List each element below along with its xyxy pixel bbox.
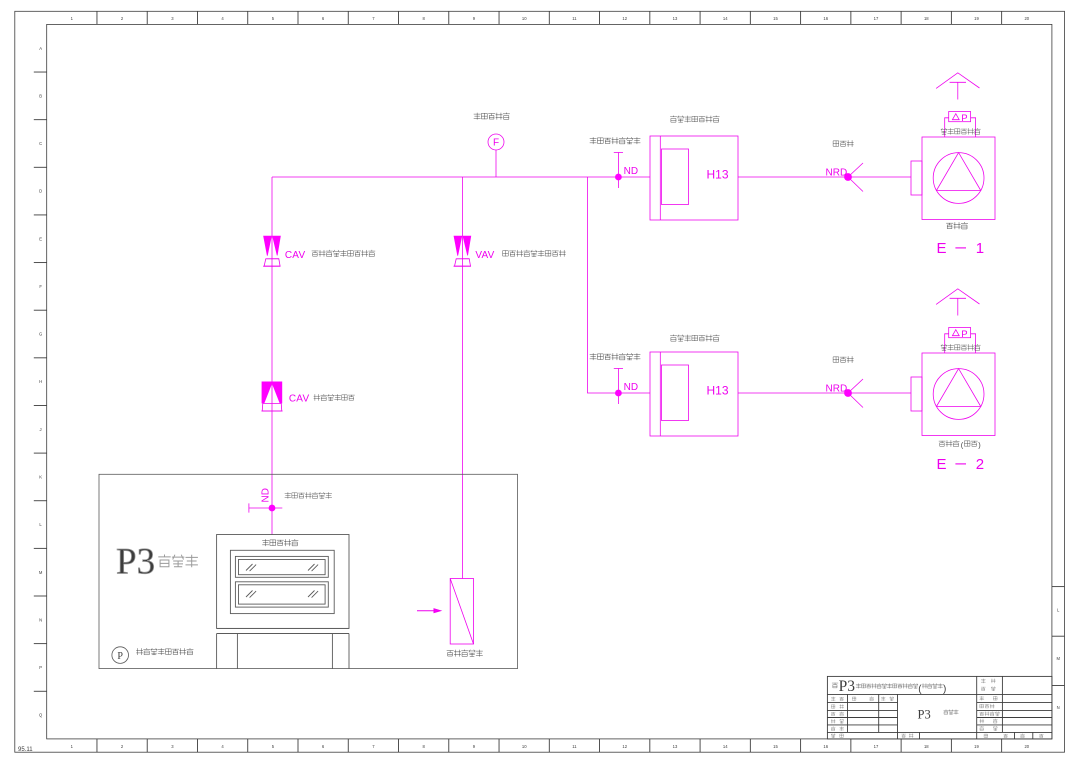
arrow discharge E-1 <box>936 73 979 100</box>
wire VAV branch riser <box>461 177 463 579</box>
title block row label <box>831 727 835 731</box>
svg-text:16: 16 <box>823 16 828 21</box>
label 风机压差开关 #2 <box>941 344 980 350</box>
label 袋进袋出过滤器 #1 <box>670 116 719 122</box>
svg-text:15: 15 <box>773 744 778 749</box>
svg-text:G: G <box>39 332 42 337</box>
title block row label <box>831 697 835 701</box>
title block right label <box>980 712 1000 716</box>
valve ND biosafety sealed valve #3 (room) <box>249 488 282 513</box>
svg-text:NRD: NRD <box>826 167 848 178</box>
label 排风机(备用) <box>939 440 959 446</box>
pressure switch ΔP E-2 <box>945 328 976 354</box>
svg-text:H: H <box>39 379 42 384</box>
svg-text:D: D <box>39 189 42 194</box>
valve ND biosafety sealed valve #2 <box>614 369 623 405</box>
svg-text:20: 20 <box>1024 16 1029 21</box>
wire branch2 drop <box>588 177 651 393</box>
svg-text:CAV: CAV <box>285 250 306 261</box>
filter H13 bag-in bag-out #1 <box>650 136 738 220</box>
label 风机压差开关 #1 <box>941 128 980 134</box>
check valve NRD #1 <box>844 163 863 192</box>
arrow into exhaust <box>417 609 441 613</box>
svg-text:A: A <box>39 46 42 51</box>
svg-text:17: 17 <box>874 16 879 21</box>
svg-text:F: F <box>39 284 42 289</box>
label 比例 <box>902 734 906 737</box>
label 变风量文丘里排风阀 <box>503 250 566 256</box>
svg-text:10: 10 <box>522 16 527 21</box>
header 签字 日期 <box>853 697 856 700</box>
label 单向阀 #2 <box>833 356 853 362</box>
label 建设单位 <box>981 679 985 683</box>
wire filter1 to fan E-1 <box>738 176 911 178</box>
svg-text:VAV: VAV <box>475 250 494 261</box>
arrow discharge E-2 <box>936 289 979 316</box>
svg-text:H13: H13 <box>707 168 729 182</box>
svg-text:13: 13 <box>673 16 678 21</box>
wire filter2 to fan E-2 <box>738 392 911 394</box>
title block frame <box>827 676 1052 739</box>
svg-text:19: 19 <box>974 16 979 21</box>
fan E-2 standby exhaust fan <box>911 353 995 436</box>
flow sensor F stem <box>495 150 497 177</box>
room P3 laboratory outline <box>99 474 518 668</box>
svg-text:P: P <box>961 329 967 340</box>
label 生物安全密闭阀 #1 <box>590 137 640 144</box>
label 生物安全密闭阀 #2 <box>590 353 640 360</box>
biosafety cabinet 生物安全柜 <box>217 535 349 669</box>
svg-text:M: M <box>1056 656 1060 661</box>
title block right label <box>980 719 984 723</box>
valve CAV2 constant air volume exhaust valve <box>261 382 282 412</box>
sensor P room differential pressure <box>112 647 129 664</box>
svg-text:B: B <box>39 93 42 98</box>
svg-text:M: M <box>39 570 43 575</box>
title block row label <box>831 719 835 723</box>
label 实验室 (room) <box>159 555 198 567</box>
title block right label <box>980 726 984 730</box>
svg-text:12: 12 <box>622 744 627 749</box>
svg-text:): ) <box>978 440 980 449</box>
svg-text:17: 17 <box>874 744 879 749</box>
svg-text:NRD: NRD <box>826 383 848 394</box>
label 生物安全密闭阀 #3 <box>285 492 332 498</box>
label 定风量排风阀 <box>314 394 355 400</box>
svg-text:10: 10 <box>522 744 527 749</box>
wire CAV branch riser <box>271 177 273 535</box>
svg-text:C: C <box>39 141 42 146</box>
title text 某P3实验室通风空调系统流程图(排风部分) <box>832 683 838 688</box>
label 生物安全柜 <box>262 539 298 546</box>
check valve NRD #2 <box>844 379 863 408</box>
label 定风量文丘里排风阀 <box>312 250 375 256</box>
svg-text:F: F <box>493 138 499 149</box>
svg-text:14: 14 <box>723 16 728 21</box>
title block row label <box>831 712 835 715</box>
svg-text:14: 14 <box>723 744 728 749</box>
svg-text:16: 16 <box>823 744 828 749</box>
svg-text:18: 18 <box>924 744 929 749</box>
svg-text:ND: ND <box>624 166 638 177</box>
svg-text:19: 19 <box>974 744 979 749</box>
svg-text:15: 15 <box>773 16 778 21</box>
svg-text:CAV: CAV <box>289 394 310 405</box>
svg-text:ND: ND <box>624 382 638 393</box>
svg-text:H13: H13 <box>707 384 729 398</box>
svg-text:P3: P3 <box>839 678 856 695</box>
pressure switch ΔP E-1 <box>945 112 976 138</box>
svg-text:P: P <box>39 665 42 670</box>
HEPA exhaust register 高效排风口 <box>450 579 473 645</box>
title block row label <box>831 734 835 738</box>
svg-text:11: 11 <box>572 16 577 21</box>
label 袋进袋出过滤器 #2 <box>670 335 719 341</box>
flow sensor F circle <box>488 134 504 150</box>
svg-text:P: P <box>961 113 967 124</box>
svg-text:K: K <box>39 475 42 480</box>
svg-text:N: N <box>39 617 42 622</box>
title block row label <box>832 705 835 708</box>
svg-text:N: N <box>1057 705 1060 710</box>
bottom row marks <box>984 734 987 737</box>
svg-text:95.11: 95.11 <box>18 747 33 753</box>
svg-text:P3: P3 <box>116 542 155 583</box>
label 房间微压差传感器 <box>136 648 193 654</box>
valve ND biosafety sealed valve #1 <box>614 153 623 189</box>
svg-text:E: E <box>39 236 42 241</box>
svg-text:13: 13 <box>673 744 678 749</box>
svg-text:P: P <box>117 651 123 662</box>
label 排风机 <box>946 222 967 229</box>
svg-text:): ) <box>943 684 946 695</box>
svg-text:11: 11 <box>572 744 577 749</box>
label 单向阀 #1 <box>833 140 853 146</box>
title block right label <box>980 704 994 708</box>
wire main exhaust header <box>272 176 650 178</box>
fan E-1 exhaust fan <box>911 137 995 220</box>
svg-text:P3: P3 <box>918 708 931 722</box>
filter H13 bag-in bag-out #2 <box>650 352 738 436</box>
svg-text:20: 20 <box>1024 744 1029 749</box>
label 高效排风口 <box>447 650 483 657</box>
valve CAV constant air volume venturi valve <box>263 236 280 266</box>
title block right label <box>980 696 984 700</box>
valve VAV variable air volume venturi valve <box>454 236 471 266</box>
svg-text:ND: ND <box>261 488 272 502</box>
svg-text:18: 18 <box>924 16 929 21</box>
svg-text:J: J <box>40 427 42 432</box>
svg-text:12: 12 <box>622 16 627 21</box>
label 风量传感器 <box>474 113 510 120</box>
